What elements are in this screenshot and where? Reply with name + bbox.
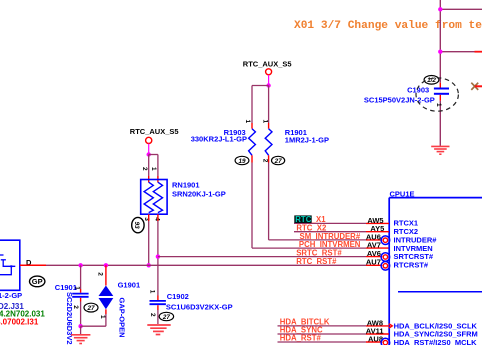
marker X (DNI cross) <box>471 83 482 90</box>
bubble INTRUDER# <box>381 236 390 245</box>
wire stub to ground <box>80 326 82 334</box>
net label HDA_SYNC <box>278 326 478 339</box>
wire jog to R1903 column <box>252 85 269 87</box>
dashed highlight ellipse around C1903 <box>416 78 458 111</box>
svg-text:1-2-GP: 1-2-GP <box>0 291 22 300</box>
resistor R1901 <box>262 120 329 163</box>
stamp 19 R1903 <box>235 156 249 165</box>
node dot RN pin4 / SRTC <box>156 254 160 258</box>
svg-text:SC15P50V2JN-2-GP: SC15P50V2JN-2-GP <box>364 95 435 104</box>
svg-text:93: 93 <box>133 222 140 230</box>
svg-text:1: 1 <box>435 103 442 107</box>
svg-text:G1901: G1901 <box>118 281 141 290</box>
svg-text:1MR2J-1-GP: 1MR2J-1-GP <box>285 136 329 145</box>
svg-text:SC2D2U6D3V2KX-GP: SC2D2U6D3V2KX-GP <box>65 292 74 345</box>
port RTC_AUX_S5 (top) <box>243 60 292 88</box>
wire RN pin3 to RTC_RST rail <box>148 214 150 221</box>
svg-text:2: 2 <box>149 313 156 317</box>
svg-text:1: 1 <box>244 120 251 124</box>
bubble RTCRST# <box>381 262 390 271</box>
svg-text:AU7: AU7 <box>366 257 381 266</box>
stamp 1/2 C1903 <box>424 76 439 85</box>
stamp GP <box>30 276 45 287</box>
svg-text:2: 2 <box>262 159 269 163</box>
svg-text:GP: GP <box>32 277 43 286</box>
svg-text:GAP-OPEN: GAP-OPEN <box>118 298 127 338</box>
stamp 27 R1901 <box>272 156 285 165</box>
wire RTC_RST# rail red stub from box <box>20 264 46 266</box>
wire R1903 column lower to PCH row <box>251 163 253 249</box>
wire RN pin1 stub <box>157 155 159 177</box>
svg-text:RN1901: RN1901 <box>172 181 200 190</box>
net label SM_INTRUDER# <box>300 232 438 245</box>
node junction dot (440,9.3) <box>438 7 442 11</box>
svg-text:2: 2 <box>97 272 104 276</box>
bubble HDA_RST# <box>381 338 390 345</box>
svg-text:27: 27 <box>274 158 283 165</box>
wire RN pin4 down to SRTC row and C1902 <box>157 214 159 221</box>
wire R1903 column upper <box>251 86 253 124</box>
stamp 93 RN1901 <box>132 217 144 232</box>
bubble SRTCRST# <box>381 253 390 262</box>
svg-text:1: 1 <box>148 290 155 294</box>
ground below C1902 <box>147 325 170 335</box>
svg-text:1: 1 <box>74 286 81 290</box>
spark gap G1901 <box>81 263 141 337</box>
stamp 27 C1902 <box>159 312 173 321</box>
capacitor C1901 <box>55 263 89 345</box>
net label PCH_INTVRMEN <box>299 240 433 253</box>
wire RN pin2 stub <box>148 155 150 177</box>
net label SRTC_RST# <box>296 249 434 262</box>
wire PCH_INTVRMEN <box>252 247 366 249</box>
wire jog to RN pin1 column <box>149 154 158 156</box>
capacitor C1903 <box>364 83 449 146</box>
svg-text:27: 27 <box>86 305 95 312</box>
node dot C1901/G1901 ground junction <box>78 324 82 328</box>
wire R1901 column upper <box>268 86 270 124</box>
component box (left edge, partial) <box>0 240 20 290</box>
svg-text:C1901: C1901 <box>55 283 77 292</box>
stamp 27 C1901 <box>84 303 98 312</box>
resistor R1903 <box>191 120 256 163</box>
port RTC_AUX_S5 (left) <box>130 127 179 157</box>
CPU1E block <box>389 189 482 345</box>
wire vertical net to C1903 <box>439 0 441 83</box>
ground below C1901 <box>71 335 90 344</box>
wire branch right y=51.7 <box>440 51 474 53</box>
wire SM_INTRUDER# <box>269 239 366 241</box>
svg-text:RTC_AUX_S5: RTC_AUX_S5 <box>130 127 179 136</box>
svg-text:HDA_RST#: HDA_RST# <box>280 334 322 343</box>
node dot RN pin3 / rail <box>147 263 151 267</box>
svg-text:330KR2J-L1-GP: 330KR2J-L1-GP <box>191 134 247 143</box>
net label HDA_BITCLK <box>278 318 478 331</box>
svg-text:SC1U6D3V2KX-GP: SC1U6D3V2KX-GP <box>166 303 233 312</box>
svg-text:4: 4 <box>153 217 160 221</box>
net label RTC_X1 (highlighted) <box>294 215 418 228</box>
wire R1901 column lower to SM row <box>268 163 270 240</box>
svg-text:4.07002.I31: 4.07002.I31 <box>0 317 39 326</box>
svg-text:SRN20KJ-1-GP: SRN20KJ-1-GP <box>172 189 226 198</box>
svg-text:27: 27 <box>162 314 171 321</box>
ground below C1903 <box>431 146 449 154</box>
net label HDA_RST# <box>278 334 478 345</box>
wire RTC_RST# rail <box>46 264 366 266</box>
svg-text:X01 3/7 Change value from test: X01 3/7 Change value from test <box>294 20 482 32</box>
wire SRTC_RST# <box>158 256 366 258</box>
svg-text:RTC_AUX_S5: RTC_AUX_S5 <box>243 60 292 69</box>
node junction dot (440,51.7) <box>438 50 442 54</box>
net label RTC_RST# <box>296 257 429 270</box>
svg-text:HDA_RST#/I2S0_MCLK: HDA_RST#/I2S0_MCLK <box>394 338 478 345</box>
svg-text:19: 19 <box>238 158 246 165</box>
svg-text:C1902: C1902 <box>167 292 189 301</box>
svg-text:2: 2 <box>141 167 148 171</box>
resistor network RN1901 <box>141 180 226 215</box>
net label RTC_X2 <box>294 224 418 237</box>
svg-text:1: 1 <box>262 120 269 124</box>
wire branch right y=9.3 <box>440 8 482 10</box>
capacitor C1902 <box>148 290 232 324</box>
svg-text:RTC_RST#: RTC_RST# <box>296 257 337 266</box>
svg-text:1: 1 <box>150 167 157 171</box>
svg-text:RTCRST#: RTCRST# <box>394 261 429 270</box>
svg-text:1: 1 <box>99 315 106 319</box>
